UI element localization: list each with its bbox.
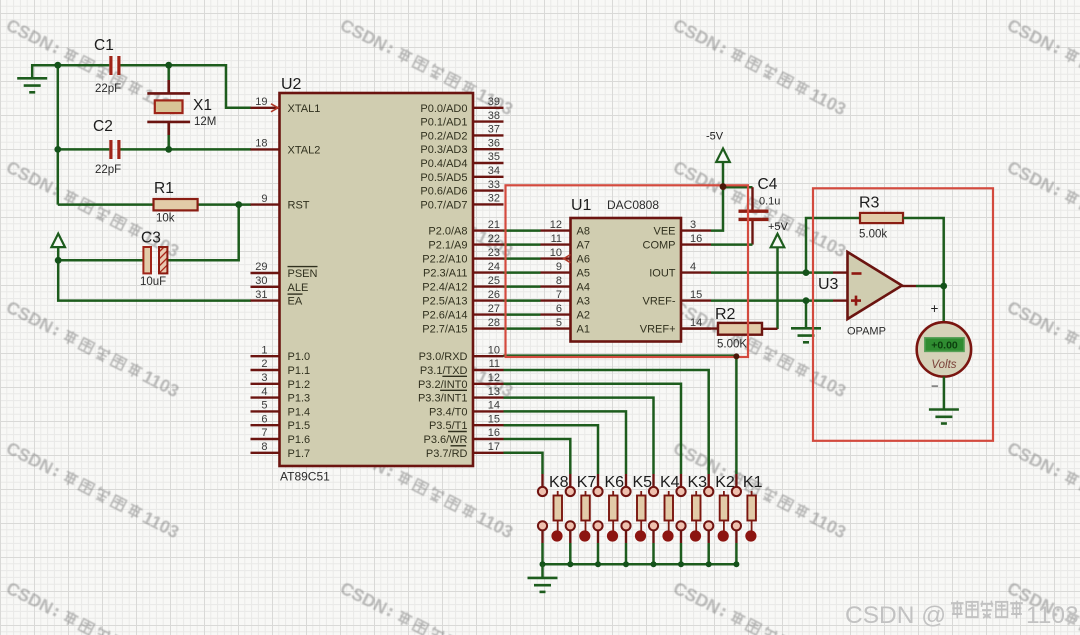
- svg-text:13: 13: [488, 386, 500, 398]
- wire left to R1: [58, 203, 154, 206]
- capacitor C4: [751, 187, 753, 244]
- op-amp input stubs: [833, 273, 848, 301]
- svg-text:A1: A1: [577, 324, 590, 336]
- svg-text:P1.1: P1.1: [288, 365, 311, 377]
- wire plus input to ground: [805, 301, 808, 328]
- svg-text:16: 16: [690, 233, 702, 245]
- switch K8: [538, 487, 563, 564]
- svg-text:12M: 12M: [194, 116, 216, 128]
- ground op-amp plus: [791, 328, 821, 342]
- wire P2.1 to A7: [504, 243, 541, 246]
- svg-text:CSDN @: CSDN @: [845, 602, 946, 629]
- svg-text:K4: K4: [660, 474, 680, 491]
- svg-text:9: 9: [556, 261, 562, 273]
- switch K7: [566, 487, 591, 564]
- svg-text:15: 15: [488, 413, 500, 425]
- U2 right pin names: [418, 103, 468, 460]
- svg-text:P0.4/AD4: P0.4/AD4: [420, 158, 467, 170]
- wire C1 right to XTAL1: [120, 65, 251, 108]
- junction plus input node: [803, 297, 810, 304]
- svg-text:5: 5: [556, 317, 562, 329]
- svg-text:26: 26: [488, 289, 500, 301]
- junction -5V net on box edge: [720, 183, 727, 190]
- svg-text:35: 35: [488, 151, 500, 163]
- svg-text:PSEN: PSEN: [288, 268, 318, 280]
- svg-text:P2.6/A14: P2.6/A14: [422, 310, 467, 322]
- svg-text:P2.0/A8: P2.0/A8: [428, 226, 467, 238]
- selection box DAC: [506, 185, 749, 357]
- wire ground to C1 left: [32, 65, 109, 78]
- wire RST node to C3 right: [167, 205, 238, 261]
- junction X1 bottom: [165, 146, 172, 153]
- svg-text:A7: A7: [577, 240, 590, 252]
- wire VREF- to op-amp plus: [711, 299, 833, 302]
- svg-text:15: 15: [690, 289, 702, 301]
- svg-text:22pF: 22pF: [95, 164, 121, 176]
- svg-text:P1.4: P1.4: [288, 406, 311, 418]
- pin arrow XTAL1: [271, 104, 278, 112]
- capacitor C2: [111, 140, 119, 159]
- wire +5V to R2: [776, 248, 779, 329]
- svg-text:R2: R2: [715, 306, 736, 323]
- switch K1: [732, 487, 757, 564]
- svg-text:18: 18: [255, 138, 267, 150]
- junction RST node: [235, 201, 242, 208]
- wire P3.5 to K6: [504, 425, 599, 474]
- svg-text:R3: R3: [859, 195, 880, 212]
- U2 left pin names: [288, 103, 321, 460]
- junction bus: [595, 561, 601, 567]
- svg-text:X1: X1: [193, 97, 212, 114]
- wire output to node: [916, 285, 944, 288]
- junction bus: [623, 561, 629, 567]
- svg-text:10: 10: [550, 247, 562, 259]
- svg-text:28: 28: [488, 317, 500, 329]
- wire P3.1 to K2: [504, 370, 709, 474]
- svg-text:P3.2/INT0: P3.2/INT0: [418, 379, 468, 391]
- wire P2.7 to A1: [504, 327, 541, 330]
- wire -5V net to C4 top: [723, 186, 753, 189]
- svg-text:+0.00: +0.00: [931, 340, 958, 352]
- svg-text:U3: U3: [818, 276, 839, 293]
- svg-text:33: 33: [488, 179, 500, 191]
- voltmeter U4: [917, 322, 971, 376]
- svg-text:-5V: -5V: [706, 131, 724, 143]
- svg-text:7: 7: [556, 289, 562, 301]
- junction bus: [651, 561, 657, 567]
- junction C2 rail: [54, 146, 61, 153]
- svg-text:17: 17: [488, 441, 500, 453]
- svg-text:31: 31: [255, 289, 267, 301]
- svg-text:10uF: 10uF: [140, 276, 166, 288]
- wire P2.3 to A5: [504, 271, 541, 274]
- svg-text:30: 30: [255, 275, 267, 287]
- svg-text:RST: RST: [288, 200, 310, 212]
- wire P2.2 to A6: [504, 257, 541, 260]
- junction bus: [540, 561, 546, 567]
- wire P2.0 to A8: [504, 229, 541, 232]
- U2 right pin numbers: [488, 96, 500, 453]
- svg-text:5.00K: 5.00K: [717, 339, 747, 351]
- svg-text:P3.6/WR: P3.6/WR: [423, 434, 467, 446]
- wire IOUT to op-amp minus: [711, 271, 833, 274]
- svg-text:VEE: VEE: [653, 226, 675, 238]
- junction bus: [567, 561, 573, 567]
- svg-text:K7: K7: [577, 474, 597, 491]
- svg-text:K6: K6: [605, 474, 625, 491]
- wire bus to ground: [541, 564, 544, 577]
- svg-text:5: 5: [261, 400, 267, 412]
- svg-text:P3.3/INT1: P3.3/INT1: [418, 393, 468, 405]
- svg-text:XTAL1: XTAL1: [288, 103, 321, 115]
- svg-text:C1: C1: [94, 37, 114, 54]
- svg-text:−: −: [931, 379, 939, 394]
- svg-text:XTAL2: XTAL2: [288, 144, 321, 156]
- switch K2: [704, 487, 729, 564]
- svg-text:12: 12: [488, 372, 500, 384]
- wire VCC arrow to C3/EA: [58, 247, 251, 300]
- svg-text:P1.5: P1.5: [288, 420, 311, 432]
- svg-text:23: 23: [488, 247, 500, 259]
- svg-text:6: 6: [556, 303, 562, 315]
- wire node to voltmeter +: [942, 286, 945, 323]
- svg-text:OPAMP: OPAMP: [847, 326, 886, 338]
- svg-text:14: 14: [488, 400, 500, 412]
- ground near C1: [17, 78, 47, 92]
- junction bus: [733, 561, 739, 567]
- svg-text:P3.0/RXD: P3.0/RXD: [419, 351, 468, 363]
- svg-text:AT89C51: AT89C51: [280, 470, 330, 484]
- svg-text:K2: K2: [715, 474, 735, 491]
- svg-text:11: 11: [489, 358, 500, 370]
- resistor R2: [718, 323, 762, 335]
- junction C3 left: [55, 257, 62, 264]
- switch K3: [676, 487, 701, 564]
- wire P3.6 to K7: [504, 439, 571, 474]
- svg-text:32: 32: [488, 193, 500, 205]
- svg-text:P1.2: P1.2: [288, 379, 311, 391]
- svg-text:4: 4: [261, 386, 267, 398]
- svg-text:10: 10: [488, 344, 500, 356]
- svg-text:27: 27: [488, 303, 500, 315]
- crystal X1: [147, 80, 190, 135]
- wire C2 right to XTAL2: [120, 148, 251, 151]
- svg-text:8: 8: [261, 441, 267, 453]
- svg-text:P0.1/AD1: P0.1/AD1: [420, 117, 467, 129]
- svg-text:C3: C3: [141, 230, 161, 247]
- svg-text:A8: A8: [577, 226, 590, 238]
- svg-text:21: 21: [488, 219, 500, 231]
- svg-text:U1: U1: [571, 197, 592, 214]
- U1 right pin stubs: [681, 231, 711, 329]
- capacitor C1: [111, 56, 119, 75]
- svg-text:C4: C4: [758, 176, 778, 193]
- svg-text:P3.1/TXD: P3.1/TXD: [420, 365, 468, 377]
- svg-text:6: 6: [261, 413, 267, 425]
- svg-text:7: 7: [261, 427, 267, 439]
- svg-text:P2.7/A15: P2.7/A15: [422, 324, 467, 336]
- wire COMP to C4 bottom: [711, 243, 753, 246]
- svg-text:P1.0: P1.0: [288, 351, 311, 363]
- wire to C2 left: [58, 148, 110, 151]
- svg-text:4: 4: [690, 261, 696, 273]
- svg-text:P3.5/T1: P3.5/T1: [429, 420, 468, 432]
- svg-text:A4: A4: [577, 282, 590, 294]
- U1 right pin names: [640, 226, 676, 336]
- switch K5: [621, 487, 646, 564]
- switch K4: [649, 487, 674, 564]
- svg-text:Volts: Volts: [931, 359, 956, 371]
- svg-text:C2: C2: [93, 118, 113, 135]
- U2 left pin stubs: [251, 108, 280, 453]
- svg-text:P0.2/AD2: P0.2/AD2: [420, 130, 467, 142]
- U1 left pin names A8-A1: [577, 226, 590, 336]
- svg-text:R1: R1: [154, 180, 174, 197]
- svg-text:K8: K8: [549, 474, 569, 491]
- junction IOUT node: [803, 269, 810, 276]
- U1 right pin numbers: [690, 219, 702, 329]
- U2 right pin stubs: [473, 108, 504, 453]
- svg-text:A5: A5: [577, 268, 590, 280]
- svg-text:25: 25: [488, 275, 500, 287]
- svg-text:P2.3/A11: P2.3/A11: [423, 268, 467, 280]
- svg-text:P0.3/AD3: P0.3/AD3: [420, 144, 467, 156]
- svg-text:37: 37: [488, 124, 500, 136]
- svg-text:+5V: +5V: [768, 221, 789, 233]
- wire VEE to -5V: [711, 163, 723, 231]
- svg-text:36: 36: [488, 137, 500, 149]
- U2 left pin numbers: [255, 96, 267, 453]
- svg-text:A3: A3: [577, 296, 590, 308]
- resistor R3: [860, 213, 903, 223]
- svg-text:P3.7/RD: P3.7/RD: [426, 448, 468, 460]
- op-amp output stub: [902, 285, 916, 287]
- svg-text:P2.1/A9: P2.1/A9: [428, 240, 467, 252]
- wire P3.4 to K5: [504, 411, 627, 474]
- wire left vertical C1-rail to R1: [57, 65, 60, 204]
- resistor R1: [154, 199, 198, 210]
- power symbol -5V: [716, 149, 730, 163]
- selection box op-amp: [813, 188, 993, 440]
- wire voltmeter - to ground: [943, 377, 946, 409]
- junction output node: [940, 283, 947, 290]
- capacitor C3: [143, 247, 151, 273]
- power symbol VCC: [51, 234, 65, 248]
- junction X1 top: [165, 62, 172, 69]
- svg-text:VREF+: VREF+: [640, 324, 676, 336]
- svg-text:P2.2/A10: P2.2/A10: [422, 254, 467, 266]
- U2 overlines PSEN EA: [288, 267, 318, 295]
- wire R3 right to output node: [903, 218, 944, 286]
- svg-text:2: 2: [261, 358, 267, 370]
- svg-text:VREF-: VREF-: [643, 296, 676, 308]
- svg-text:1103: 1103: [1026, 602, 1079, 629]
- svg-text:DAC0808: DAC0808: [607, 198, 659, 212]
- svg-text:K1: K1: [743, 474, 763, 491]
- svg-text:COMP: COMP: [643, 240, 676, 252]
- junction bus: [678, 561, 684, 567]
- pin arrow A6: [564, 255, 571, 263]
- svg-text:P1.3: P1.3: [288, 393, 311, 405]
- IC U2 AT89C51: [280, 93, 474, 466]
- svg-text:0.1u: 0.1u: [759, 196, 780, 208]
- svg-text:+: +: [931, 301, 939, 316]
- wire P3.3 to K4: [504, 398, 654, 474]
- svg-text:22pF: 22pF: [95, 83, 121, 95]
- svg-text:34: 34: [488, 165, 500, 177]
- svg-text:11: 11: [551, 233, 562, 245]
- svg-text:P0.0/AD0: P0.0/AD0: [420, 103, 467, 115]
- junction P3.0 corner on box edge: [733, 353, 739, 359]
- svg-text:16: 16: [488, 427, 500, 439]
- wire to C3 left: [58, 259, 143, 262]
- svg-text:A6: A6: [577, 254, 590, 266]
- switch K6: [593, 487, 618, 564]
- wire R1 to RST: [198, 203, 251, 206]
- wire P3.2 to K3: [504, 384, 682, 474]
- op-amp U3: [848, 252, 903, 319]
- wire X1 top to rail: [167, 65, 170, 80]
- svg-text:K5: K5: [633, 474, 653, 491]
- wire ground bus: [543, 563, 737, 566]
- svg-text:P0.5/AD5: P0.5/AD5: [420, 172, 467, 184]
- svg-text:38: 38: [488, 110, 500, 122]
- svg-text:39: 39: [488, 96, 500, 108]
- svg-text:P2.4/A12: P2.4/A12: [422, 282, 467, 294]
- svg-text:19: 19: [255, 96, 267, 108]
- svg-text:A2: A2: [577, 310, 590, 322]
- U2 overlines P3 names: [440, 376, 467, 446]
- svg-text:P0.6/AD6: P0.6/AD6: [420, 186, 467, 198]
- ground switches: [528, 578, 558, 592]
- power symbol +5V: [771, 234, 785, 248]
- svg-text:U2: U2: [281, 76, 302, 93]
- IC U1 DAC0808: [571, 218, 682, 342]
- svg-text:10k: 10k: [156, 213, 175, 225]
- wire P2.4 to A4: [504, 285, 541, 288]
- svg-text:ALE: ALE: [288, 282, 309, 294]
- wire P2.5 to A3: [504, 299, 541, 302]
- svg-text:14: 14: [690, 317, 702, 329]
- U1 left pin stubs: [541, 231, 571, 329]
- svg-text:P1.6: P1.6: [288, 434, 311, 446]
- wire feedback to R3 left: [806, 218, 860, 273]
- svg-text:P3.4/T0: P3.4/T0: [429, 406, 468, 418]
- junction bus: [706, 561, 712, 567]
- svg-text:P2.5/A13: P2.5/A13: [422, 296, 467, 308]
- svg-text:9: 9: [261, 193, 267, 205]
- svg-text:24: 24: [488, 261, 500, 273]
- svg-text:IOUT: IOUT: [649, 268, 676, 280]
- svg-text:3: 3: [261, 372, 267, 384]
- wire P3.7 to K8: [504, 453, 543, 474]
- svg-text:29: 29: [255, 261, 267, 273]
- svg-text:P0.7/AD7: P0.7/AD7: [420, 199, 467, 211]
- resistor R2 leads: [681, 327, 778, 330]
- wire P2.6 to A2: [504, 313, 541, 316]
- wire X1 bottom to C2 rail: [167, 135, 170, 149]
- svg-text:12: 12: [550, 219, 562, 231]
- svg-text:K3: K3: [688, 474, 708, 491]
- svg-text:EA: EA: [288, 296, 303, 308]
- svg-text:1: 1: [261, 344, 267, 356]
- watermark bottom right: [845, 601, 1079, 629]
- svg-text:5.00k: 5.00k: [859, 229, 887, 241]
- ground voltmeter: [929, 410, 959, 424]
- wire P3.0 to K1: [504, 356, 737, 474]
- svg-text:P1.7: P1.7: [288, 448, 311, 460]
- junction C1 rail: [54, 62, 61, 69]
- svg-text:22: 22: [488, 233, 500, 245]
- svg-text:8: 8: [556, 275, 562, 287]
- U1 left pin numbers: [550, 219, 562, 329]
- svg-text:3: 3: [690, 219, 696, 231]
